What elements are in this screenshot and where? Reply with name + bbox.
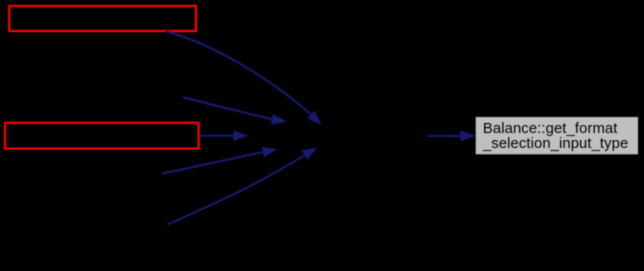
edge E1: box1 -> middle node (curved) — [166, 31, 311, 114]
arrowhead E4 — [262, 147, 278, 158]
node: truncated caller box 2 (red, middle-left) — [5, 123, 199, 149]
svg-text:Balance::get_format: Balance::get_format — [483, 121, 618, 137]
arrowhead E5 — [302, 148, 318, 160]
edge E5: hidden bottom node -> middle node (curved) — [168, 155, 305, 224]
arrowhead E2 — [271, 114, 287, 125]
arrowhead E3 — [233, 130, 248, 141]
edge E2: hidden node -> middle node (straight) — [183, 97, 272, 119]
edge E6: middle node -> current function node — [427, 135, 460, 137]
edge E3: box2 -> middle node (horizontal) — [200, 135, 234, 137]
arrowhead E6 — [460, 131, 476, 142]
edge E4: hidden node -> middle node (straight, from below) — [162, 152, 263, 174]
node: current function (grey box) — [475, 117, 638, 155]
node: truncated caller box 1 (red, top-left) — [9, 6, 196, 31]
svg-text:_selection_input_type: _selection_input_type — [482, 136, 628, 152]
arrowhead E1 — [307, 111, 322, 125]
